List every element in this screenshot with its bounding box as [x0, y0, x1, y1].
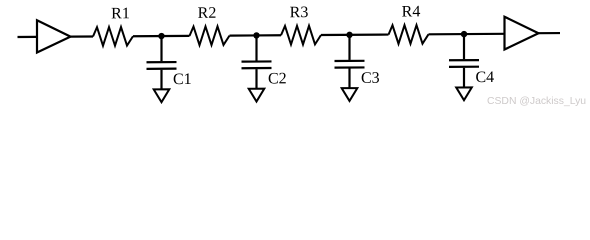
svg-text:C4: C4 [476, 69, 495, 86]
capacitor C1 [147, 62, 177, 69]
resistor R4 [389, 25, 429, 44]
node C junction dot [346, 32, 352, 38]
ground (C3) [342, 88, 358, 101]
wire output stub [539, 32, 561, 34]
op-amp U1 (left buffer triangle) [37, 20, 71, 52]
wire C2 to ground [255, 69, 257, 88]
wire input stub [18, 36, 37, 38]
capacitor C2 [242, 61, 272, 68]
wire node B down to C2 [255, 35, 257, 60]
wire node A down to C1 [160, 36, 162, 61]
wire R1 to R2 [133, 35, 190, 38]
svg-text:R4: R4 [402, 3, 421, 20]
ground (C1) [154, 89, 170, 102]
watermark CSDN @Jackiss_Lyu [487, 96, 586, 107]
svg-text:C2: C2 [268, 70, 287, 87]
node B junction dot [253, 32, 259, 38]
node A junction dot [158, 33, 164, 39]
svg-text:C1: C1 [173, 71, 192, 88]
wire R2 to R3 [230, 34, 282, 37]
wire node C down to C3 [348, 35, 350, 60]
op-amp U2 (right buffer triangle) [505, 17, 539, 50]
capacitor C4 [449, 60, 479, 67]
svg-text:R2: R2 [198, 5, 217, 22]
resistor R3 [281, 26, 321, 45]
wire R3 to R4 [321, 33, 389, 36]
svg-text:C3: C3 [361, 70, 380, 87]
wire C1 to ground [160, 70, 162, 89]
wire U1 output to R1 [71, 35, 94, 37]
svg-text:R3: R3 [290, 4, 309, 21]
wire R4 to U2 [429, 33, 505, 36]
resistor R2 [190, 26, 230, 45]
ground (C2) [249, 89, 265, 102]
wire node D down to C4 [463, 34, 465, 59]
resistor R1 [93, 27, 133, 46]
wire C4 to ground [463, 68, 465, 87]
node D junction dot [461, 31, 467, 37]
ground (C4) [456, 87, 472, 100]
wire C3 to ground [348, 69, 350, 88]
svg-text:R1: R1 [111, 5, 130, 22]
capacitor C3 [335, 61, 365, 68]
